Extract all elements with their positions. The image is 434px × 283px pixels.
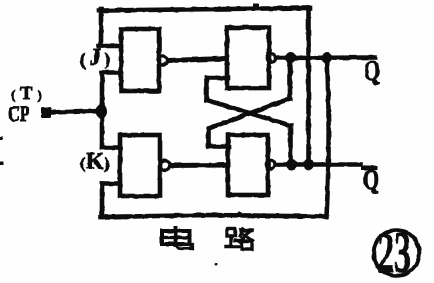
svg-text:Q: Q [364,56,380,87]
svg-text:CP: CP [8,101,30,126]
svg-text:(K): (K) [80,149,110,174]
svg-text:(T): (T) [11,83,47,103]
svg-text:(J): (J) [80,45,114,71]
svg-text:23: 23 [378,220,412,283]
